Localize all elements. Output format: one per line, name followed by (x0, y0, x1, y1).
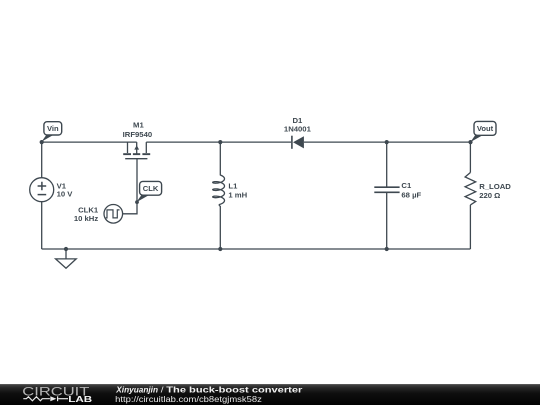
svg-text:Vin: Vin (47, 124, 59, 133)
svg-text:C1: C1 (401, 181, 412, 190)
svg-text:Vout: Vout (477, 124, 494, 133)
svg-text:220 Ω: 220 Ω (479, 191, 500, 200)
svg-text:1 mH: 1 mH (228, 190, 247, 199)
svg-text:R_LOAD: R_LOAD (479, 182, 511, 191)
svg-text:IRF9540: IRF9540 (123, 130, 153, 139)
svg-text:10 V: 10 V (57, 190, 74, 199)
svg-text:1N4001: 1N4001 (284, 125, 312, 134)
svg-text:68 µF: 68 µF (401, 191, 421, 200)
svg-text:LAB: LAB (68, 394, 92, 404)
svg-text:Xinyuanjin / The buck-boost co: Xinyuanjin / The buck-boost converter (115, 385, 303, 394)
svg-text:L1: L1 (228, 182, 238, 191)
svg-text:CLK: CLK (143, 184, 159, 193)
svg-text:D1: D1 (292, 116, 303, 125)
svg-text:http://circuitlab.com/cb8etgjm: http://circuitlab.com/cb8etgjmsk58z (115, 395, 262, 404)
svg-text:M1: M1 (133, 121, 144, 130)
svg-text:10 kHz: 10 kHz (74, 214, 99, 223)
